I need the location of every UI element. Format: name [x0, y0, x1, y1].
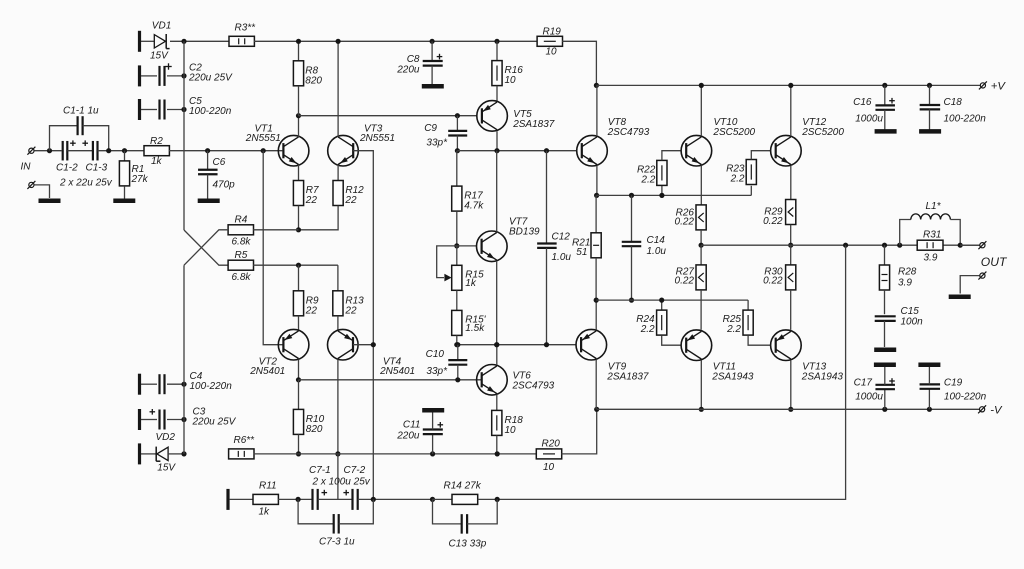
node C18 — [927, 83, 932, 88]
capacitor C13 — [433, 499, 462, 524]
transistor VT12 — [771, 135, 802, 166]
node tail 1 — [296, 227, 301, 232]
terminal pad VD1 — [138, 31, 141, 52]
node IN-C1 — [47, 148, 52, 153]
resistor R21 — [595, 195, 597, 232]
svg-text:10: 10 — [505, 425, 517, 436]
svg-text:R20: R20 — [542, 439, 561, 450]
capacitor C6 — [207, 151, 209, 170]
wire VT1 collector — [298, 116, 300, 137]
node VT1 collector — [296, 113, 301, 118]
svg-text:OUT: OUT — [981, 255, 1008, 269]
node C10 top — [455, 342, 460, 347]
node C2 — [181, 73, 186, 78]
svg-text:2SA1837: 2SA1837 — [606, 371, 649, 382]
wire positive zener rail — [183, 41, 185, 230]
resistor R5 — [228, 260, 253, 270]
wire output line — [701, 244, 980, 246]
capacitor C7-3 — [298, 499, 334, 523]
ground — [874, 347, 896, 352]
capacitor C5 — [138, 99, 141, 120]
svg-text:2N5401: 2N5401 — [379, 366, 415, 377]
node C14 top — [629, 193, 634, 198]
svg-text:10: 10 — [543, 462, 555, 473]
node C8 — [430, 39, 435, 44]
svg-text:15V: 15V — [157, 463, 176, 474]
transistor VT7 — [477, 231, 508, 262]
resistor R31 — [917, 240, 943, 250]
svg-text:220u 25V: 220u 25V — [192, 417, 237, 428]
svg-text:C10: C10 — [426, 349, 445, 360]
node C3 — [181, 417, 186, 422]
node C5 — [181, 107, 186, 112]
svg-text:C18: C18 — [944, 97, 963, 108]
node R29 R30 — [788, 243, 793, 248]
wire R19 to +V rail — [562, 41, 596, 85]
svg-text:1000u: 1000u — [855, 114, 883, 125]
resistor R12 — [337, 165, 339, 181]
capacitor C1-2 — [62, 141, 64, 161]
svg-text:100-220n: 100-220n — [189, 106, 232, 117]
node VT7 base — [454, 243, 459, 248]
ground — [919, 129, 941, 134]
wire VT6 collector — [496, 345, 498, 365]
wire R4 right — [253, 229, 298, 231]
svg-text:27k: 27k — [131, 174, 149, 185]
node VT1 base — [261, 148, 266, 153]
svg-text:2SC4793: 2SC4793 — [607, 127, 650, 138]
resistor R24 — [661, 300, 663, 310]
svg-text:10: 10 — [546, 47, 558, 58]
svg-text:1k: 1k — [259, 507, 271, 518]
capacitor C18 — [929, 85, 931, 105]
svg-text:C19: C19 — [944, 378, 963, 389]
wire VT12 collector — [790, 85, 792, 136]
terminal +V — [980, 83, 985, 88]
resistor R9 — [298, 265, 300, 291]
terminal IN ground — [29, 182, 34, 187]
svg-text:C1-1 1u: C1-1 1u — [63, 106, 99, 117]
svg-text:2.2: 2.2 — [730, 174, 745, 185]
node VT6 collector — [494, 342, 499, 347]
resistor R30 — [790, 245, 792, 265]
svg-text:2.2: 2.2 — [640, 324, 655, 335]
resistor R20 — [536, 449, 561, 459]
trimmer R15 wiper — [437, 246, 457, 278]
capacitor C1-3 — [67, 150, 93, 152]
wire R20 to -V rail — [561, 409, 596, 454]
svg-text:2N5401: 2N5401 — [249, 366, 285, 377]
node R28 top — [882, 243, 887, 248]
wire VT11 collector — [700, 361, 702, 410]
node R10 bottom — [296, 451, 301, 456]
terminal IN — [29, 148, 34, 153]
wire — [358, 498, 433, 500]
svg-text:1.5k: 1.5k — [465, 323, 485, 334]
terminal OUT — [980, 243, 985, 248]
svg-text:22: 22 — [344, 305, 357, 316]
wire VT9 emitter — [595, 300, 597, 330]
capacitor C14 — [631, 195, 633, 241]
svg-text:220u: 220u — [396, 65, 420, 76]
node R22 bottom — [659, 193, 664, 198]
svg-text:2SA1943: 2SA1943 — [801, 371, 844, 382]
resistor R17 — [456, 151, 458, 186]
capacitor C3 — [138, 409, 141, 430]
wire — [254, 40, 537, 42]
svg-text:C1-3: C1-3 — [86, 163, 108, 174]
node L1 right — [958, 243, 963, 248]
svg-text:2SC5200: 2SC5200 — [712, 127, 755, 138]
node VT3 collector — [336, 39, 341, 44]
svg-text:R2: R2 — [150, 136, 163, 147]
capacitor C4 — [138, 374, 141, 395]
svg-text:C8: C8 — [407, 54, 420, 65]
node feedback-C7 — [371, 497, 376, 502]
node VT7 emitter — [494, 342, 499, 347]
wire input to VT2 base — [263, 151, 283, 345]
svg-text:33p*: 33p* — [426, 366, 448, 377]
svg-text:220u 25V: 220u 25V — [188, 73, 233, 84]
svg-text:R31: R31 — [923, 230, 941, 241]
capacitor C12 — [546, 151, 548, 244]
node VT8 emitter — [594, 193, 599, 198]
node VT2 collector — [296, 377, 301, 382]
ground — [198, 199, 220, 204]
capacitor C8 — [431, 41, 433, 60]
wire feedback down — [497, 245, 845, 499]
svg-text:2N5551: 2N5551 — [245, 133, 281, 144]
svg-text:+V: +V — [991, 81, 1007, 93]
svg-text:C12: C12 — [552, 232, 571, 243]
svg-text:100-220n: 100-220n — [944, 392, 987, 403]
svg-text:VD2: VD2 — [156, 432, 176, 443]
svg-text:2 x 22u 25v: 2 x 22u 25v — [59, 178, 113, 189]
capacitor C16 — [884, 85, 886, 105]
svg-text:C7-3 1u: C7-3 1u — [319, 537, 355, 548]
resistor R2 — [144, 146, 169, 156]
svg-text:R4: R4 — [235, 215, 248, 226]
resistor R15 — [456, 246, 458, 265]
wire VT13 collector — [790, 361, 792, 410]
node L1 left — [897, 243, 902, 248]
resistor R4 — [228, 225, 253, 235]
wire VAS base line — [299, 115, 478, 117]
wire VT10 collector — [700, 85, 702, 136]
wire driver rail top — [597, 194, 752, 196]
node R20 -V — [594, 407, 599, 412]
capacitor C7-1 — [311, 489, 313, 510]
wire C7 midpoint to rail — [337, 454, 339, 500]
capacitor C10 — [457, 345, 459, 360]
node VT10 collector — [699, 83, 704, 88]
svg-text:0.22: 0.22 — [763, 216, 783, 227]
svg-text:C7-1: C7-1 — [309, 465, 331, 476]
wire R5 right — [253, 264, 338, 266]
node R8 top — [296, 39, 301, 44]
node VT4 base — [371, 342, 376, 347]
resistor R14 — [433, 498, 453, 500]
capacitor C19 — [928, 389, 930, 410]
node C16 — [882, 83, 887, 88]
node R15-prime bottom — [454, 342, 459, 347]
node C1 right — [98, 150, 145, 152]
ground — [949, 295, 971, 300]
wire VT8 collector — [596, 85, 598, 136]
resistor R15-prime — [456, 290, 458, 310]
transistor VT1 — [278, 135, 309, 166]
node R19 +V — [594, 83, 599, 88]
diode VD1 — [154, 35, 165, 48]
node VT12 collector — [788, 83, 793, 88]
svg-text:IN: IN — [21, 162, 32, 173]
svg-text:100-220n: 100-220n — [944, 114, 987, 125]
svg-text:2N5551: 2N5551 — [359, 133, 395, 144]
svg-text:470p: 470p — [213, 180, 236, 191]
wire VAS bottom line — [457, 344, 576, 346]
svg-text:R19: R19 — [543, 27, 562, 38]
svg-text:C6: C6 — [213, 157, 226, 168]
svg-text:2 x 100u 25v: 2 x 100u 25v — [312, 477, 371, 488]
resistor R18 — [496, 395, 498, 411]
terminal -V — [980, 407, 985, 412]
svg-text:2SC5200: 2SC5200 — [801, 127, 844, 138]
svg-text:3.9: 3.9 — [924, 253, 938, 264]
svg-text:100-220n: 100-220n — [190, 381, 233, 392]
wire VT3 collector — [337, 41, 339, 137]
svg-text:2.2: 2.2 — [726, 324, 741, 335]
resistor R26 — [696, 205, 706, 230]
capacitor C11 — [430, 451, 435, 456]
wire front-end minus rail — [254, 453, 537, 455]
wire driver rail bottom — [596, 299, 748, 301]
resistor R28 — [884, 245, 886, 265]
svg-text:VD1: VD1 — [152, 21, 171, 32]
wire VT8 emitter — [596, 166, 598, 196]
svg-text:1000u: 1000u — [855, 392, 883, 403]
svg-text:0.22: 0.22 — [675, 276, 695, 287]
svg-text:820: 820 — [306, 424, 323, 435]
node VT9 emitter — [594, 298, 599, 303]
ground — [874, 362, 896, 367]
svg-text:2SC4793: 2SC4793 — [512, 380, 555, 391]
node C9 bottom — [455, 148, 460, 153]
wire VT4 base — [353, 344, 373, 346]
transistor VT10 — [681, 135, 712, 166]
svg-text:C17: C17 — [854, 378, 873, 389]
ground — [39, 199, 61, 204]
node R18 bottom — [495, 451, 500, 456]
resistor R8 — [298, 41, 300, 61]
transistor VT2 — [278, 329, 309, 360]
svg-text:1.0u: 1.0u — [552, 252, 572, 263]
svg-text:C11: C11 — [403, 420, 421, 431]
inductor L1 — [900, 220, 911, 246]
wire npn tail — [299, 206, 339, 230]
node VT13 collector — [788, 407, 793, 412]
wire negative zener rail — [183, 265, 185, 454]
node C4 — [181, 382, 186, 387]
capacitor C15 — [875, 315, 896, 317]
transistor VT13 — [771, 330, 802, 361]
wire VT4 collector — [337, 360, 339, 454]
node VT5-VT7 collectors — [494, 148, 499, 153]
transistor VT6 — [477, 365, 508, 396]
ground — [422, 408, 444, 413]
svg-text:2.2: 2.2 — [640, 174, 655, 185]
node R14 left — [430, 497, 435, 502]
svg-text:1.0u: 1.0u — [647, 246, 667, 257]
node VT4 collector — [335, 451, 340, 456]
svg-text:22: 22 — [305, 195, 318, 206]
svg-text:R11: R11 — [259, 481, 277, 492]
node VD2 — [181, 451, 186, 456]
svg-text:0.22: 0.22 — [763, 276, 783, 287]
resistor R11 — [230, 498, 253, 500]
node feedback tap — [843, 243, 848, 248]
svg-text:BD139: BD139 — [509, 227, 540, 238]
svg-text:6.8k: 6.8k — [232, 237, 252, 248]
svg-text:2SA1837: 2SA1837 — [512, 119, 555, 130]
wire — [170, 40, 229, 42]
terminal OUT ground — [980, 273, 985, 278]
wire VT9 collector — [595, 360, 597, 409]
svg-text:R5: R5 — [235, 250, 248, 261]
svg-text:C7-2: C7-2 — [344, 465, 366, 476]
resistor R6 — [229, 449, 254, 459]
svg-text:R28: R28 — [898, 267, 917, 278]
svg-text:C14: C14 — [647, 235, 666, 246]
capacitor C9 — [456, 116, 458, 131]
transistor VT4 — [328, 329, 359, 360]
wire VT12 emitter — [790, 166, 792, 200]
wire VT7 emitter — [496, 261, 498, 345]
resistor R25 — [747, 300, 749, 310]
svg-text:33p*: 33p* — [426, 138, 448, 149]
wire VT7 base — [457, 245, 477, 247]
svg-text:820: 820 — [305, 75, 322, 86]
wire — [278, 498, 312, 500]
svg-text:51: 51 — [576, 247, 587, 258]
svg-text:3.9: 3.9 — [898, 278, 912, 289]
wire cross to R4 — [184, 230, 228, 265]
svg-text:R6**: R6** — [234, 435, 256, 446]
node R24 top — [659, 298, 664, 303]
wire to OUT — [960, 244, 980, 246]
node R14 right — [478, 498, 498, 500]
node C14 bottom — [629, 298, 634, 303]
ground — [422, 84, 444, 89]
wire -V rail — [597, 408, 980, 410]
ground — [918, 362, 940, 367]
wire VT5 collector — [496, 131, 498, 151]
node C12 bottom — [544, 342, 549, 347]
resistor R22 — [661, 186, 663, 196]
ground — [875, 129, 897, 134]
transistor VT8 — [577, 135, 608, 166]
capacitor C1-1 — [50, 126, 78, 151]
node VD1-R3 — [181, 39, 186, 44]
wire VT3 base to feedback — [353, 151, 373, 500]
transistor VT5 — [477, 101, 508, 132]
node VT11 collector — [699, 407, 704, 412]
node R16 top — [494, 39, 499, 44]
resistor R1 — [124, 151, 126, 161]
svg-text:C13 33p: C13 33p — [449, 539, 487, 550]
wire VT10 emitter — [700, 166, 702, 205]
ground — [113, 199, 135, 204]
resistor R3 — [229, 36, 254, 46]
node R1 — [122, 148, 127, 153]
node C17 — [882, 407, 887, 412]
svg-text:C15: C15 — [901, 306, 920, 317]
svg-text:C16: C16 — [853, 97, 872, 108]
resistor R16 — [496, 41, 498, 60]
wire cross to R5 — [184, 230, 228, 265]
resistor R23 — [750, 186, 752, 196]
svg-text:C9: C9 — [424, 123, 437, 134]
node R11-C7 — [296, 497, 301, 502]
node C12 top — [544, 148, 549, 153]
resistor R13 — [337, 265, 339, 291]
node C6 — [205, 148, 210, 153]
svg-text:R3**: R3** — [235, 23, 257, 34]
svg-text:R14 27k: R14 27k — [444, 481, 482, 492]
capacitor C2 — [138, 65, 141, 86]
svg-text:4.7k: 4.7k — [464, 201, 484, 212]
capacitor C7-2 — [318, 498, 353, 500]
svg-text:100n: 100n — [901, 317, 924, 328]
node R26 R27 — [699, 243, 704, 248]
svg-text:L1*: L1* — [926, 201, 942, 212]
wire — [141, 40, 154, 42]
svg-text:15V: 15V — [150, 50, 169, 61]
svg-text:2SA1943: 2SA1943 — [711, 371, 754, 382]
resistor R19 — [537, 36, 562, 46]
resistor R29 — [786, 200, 796, 225]
svg-text:6.8k: 6.8k — [232, 272, 252, 283]
capacitor C17 — [884, 389, 886, 409]
svg-text:1k: 1k — [465, 278, 477, 289]
wire +V rail — [596, 84, 980, 86]
transistor VT9 — [576, 329, 607, 360]
svg-text:22: 22 — [305, 305, 318, 316]
node C19 — [927, 407, 932, 412]
terminal pad NFB — [226, 489, 229, 510]
resistor R10 — [298, 380, 300, 410]
svg-text:22: 22 — [344, 195, 357, 206]
transistor VT3 — [328, 135, 359, 166]
transistor VT11 — [681, 330, 712, 361]
wire — [34, 150, 61, 152]
svg-text:1k: 1k — [151, 156, 163, 167]
wire VT2 collector — [298, 360, 300, 380]
node C10 bottom — [455, 377, 460, 382]
resistor R7 — [298, 165, 300, 181]
resistor R27 — [700, 245, 702, 265]
wire VT7 collector — [496, 151, 498, 232]
svg-text:0.22: 0.22 — [675, 216, 695, 227]
svg-text:10: 10 — [505, 75, 517, 86]
wire — [169, 150, 282, 152]
diode VD2 — [138, 443, 141, 464]
svg-text:220u: 220u — [396, 431, 420, 442]
node C9 top — [455, 113, 460, 118]
svg-text:-V: -V — [990, 404, 1003, 416]
svg-text:C1-2: C1-2 — [56, 163, 78, 174]
node tail 2 — [296, 263, 301, 268]
wire VAS output line — [457, 150, 577, 152]
